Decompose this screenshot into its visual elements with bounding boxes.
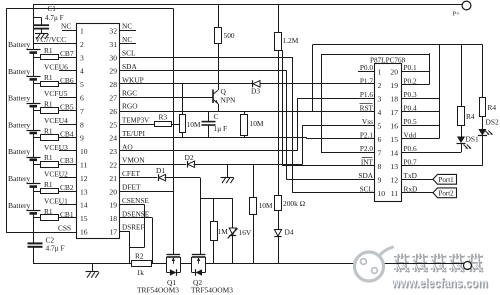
svg-text:P+: P+	[453, 11, 461, 18]
svg-text:9: 9	[80, 134, 84, 143]
svg-text:R1: R1	[44, 126, 53, 135]
svg-text:D1: D1	[156, 166, 165, 175]
svg-text:Battery: Battery	[8, 174, 31, 183]
svg-text:TE/UPI: TE/UPI	[122, 129, 146, 138]
svg-text:R1: R1	[44, 207, 53, 216]
svg-text:D4: D4	[285, 228, 294, 237]
svg-text:4: 4	[378, 108, 382, 117]
svg-text:TRF54OOM3: TRF54OOM3	[137, 286, 179, 295]
svg-text:25: 25	[109, 120, 117, 129]
svg-text:DSENSE: DSENSE	[122, 210, 150, 218]
svg-text:5: 5	[378, 122, 382, 131]
svg-text:17: 17	[390, 108, 398, 117]
svg-text:1: 1	[378, 68, 382, 77]
svg-text:24: 24	[109, 134, 117, 143]
svg-text:19: 19	[109, 201, 117, 210]
svg-text:8: 8	[378, 162, 382, 171]
svg-text:Port1: Port1	[439, 176, 455, 184]
svg-text:13: 13	[80, 187, 88, 196]
svg-text:CB7: CB7	[60, 49, 74, 58]
svg-text:18: 18	[390, 95, 398, 104]
svg-text:CFET: CFET	[122, 169, 141, 178]
svg-text:VCEU4: VCEU4	[44, 116, 68, 125]
svg-text:12: 12	[80, 174, 88, 183]
svg-text:R1: R1	[44, 180, 53, 189]
svg-text:9: 9	[378, 176, 382, 185]
svg-text:11: 11	[391, 189, 399, 198]
svg-text:CSENSE: CSENSE	[122, 197, 149, 205]
svg-text:32: 32	[109, 27, 117, 36]
svg-text:VCEU1: VCEU1	[44, 196, 68, 205]
svg-text:D2: D2	[185, 153, 194, 162]
svg-text:INT: INT	[361, 157, 374, 166]
svg-text:SCL: SCL	[360, 184, 374, 193]
svg-text:11: 11	[80, 161, 88, 170]
svg-text:R1: R1	[44, 46, 53, 55]
svg-text:VCFU5: VCFU5	[44, 89, 68, 98]
svg-text:21: 21	[109, 174, 117, 183]
svg-text:VCEU6: VCEU6	[44, 62, 68, 71]
svg-text:R4: R4	[488, 103, 497, 112]
svg-text:15: 15	[390, 135, 398, 144]
svg-text:R1: R1	[44, 153, 53, 162]
svg-text:15: 15	[80, 214, 88, 223]
svg-text:DSREF: DSREF	[122, 224, 144, 232]
svg-text:16V: 16V	[239, 228, 252, 237]
svg-text:VCEU2: VCEU2	[44, 170, 68, 179]
svg-text:P0.1: P0.1	[404, 63, 418, 72]
svg-text:P0.7: P0.7	[404, 157, 418, 166]
svg-text:5: 5	[80, 80, 84, 89]
svg-text:10M: 10M	[187, 120, 201, 129]
svg-text:Battery: Battery	[8, 147, 31, 156]
svg-text:30: 30	[109, 53, 117, 62]
svg-text:10M: 10M	[259, 201, 273, 210]
svg-text:CB1: CB1	[60, 210, 74, 219]
svg-text:14: 14	[390, 149, 398, 158]
svg-text:500: 500	[224, 31, 235, 40]
svg-text:SDA: SDA	[358, 171, 373, 180]
svg-text:Port2: Port2	[439, 189, 455, 197]
svg-text:Vss: Vss	[362, 117, 373, 126]
svg-text:RGC: RGC	[122, 89, 137, 98]
svg-text:CB3: CB3	[60, 156, 74, 165]
svg-text:WKUP: WKUP	[122, 75, 144, 84]
svg-text:DS2: DS2	[486, 118, 499, 127]
svg-text:8: 8	[80, 120, 84, 129]
svg-text:R2: R2	[135, 252, 144, 261]
svg-text:VCEU3: VCEU3	[44, 143, 68, 152]
svg-text:2: 2	[378, 81, 382, 90]
svg-text:AO: AO	[122, 142, 133, 151]
svg-text:1k: 1k	[137, 268, 145, 277]
svg-text:CB4: CB4	[60, 129, 74, 138]
svg-text:200k Ω: 200k Ω	[283, 199, 306, 208]
svg-text:27: 27	[109, 94, 117, 103]
svg-text:P0.3: P0.3	[404, 90, 418, 99]
svg-text:DS1: DS1	[466, 135, 479, 144]
svg-text:10: 10	[378, 189, 386, 198]
svg-text:P0.6: P0.6	[404, 144, 418, 153]
svg-text:3: 3	[378, 95, 382, 104]
svg-text:NPN: NPN	[221, 96, 236, 105]
svg-text:CSS: CSS	[58, 224, 71, 233]
svg-text:Vdd: Vdd	[404, 130, 417, 139]
svg-text:RxD: RxD	[404, 184, 418, 193]
svg-text:P1.7: P1.7	[360, 76, 374, 85]
svg-text:10: 10	[80, 147, 88, 156]
svg-text:NC: NC	[122, 22, 132, 31]
svg-text:7: 7	[80, 107, 84, 116]
svg-text:D3: D3	[251, 86, 260, 95]
svg-text:P0.4: P0.4	[404, 103, 418, 112]
svg-text:P0.2: P0.2	[404, 76, 418, 85]
svg-text:P2.0: P2.0	[360, 144, 374, 153]
svg-text:29: 29	[109, 67, 117, 76]
svg-text:14: 14	[80, 201, 88, 210]
svg-text:28: 28	[109, 80, 117, 89]
svg-text:4: 4	[80, 67, 84, 76]
svg-text:1.2M: 1.2M	[283, 36, 299, 45]
svg-text:www.elecfans.com: www.elecfans.com	[391, 276, 488, 290]
svg-text:16: 16	[390, 122, 398, 131]
svg-text:VC7/VCC: VC7/VCC	[35, 35, 66, 44]
svg-text:23: 23	[109, 147, 117, 156]
svg-text:R3: R3	[159, 113, 168, 122]
svg-text:R4: R4	[466, 112, 475, 121]
svg-text:C1: C1	[48, 5, 57, 13]
svg-text:17: 17	[109, 228, 117, 237]
svg-text:R1: R1	[44, 73, 53, 82]
svg-text:SCL: SCL	[122, 49, 136, 58]
svg-text:Battery: Battery	[8, 40, 31, 49]
svg-text:7: 7	[378, 149, 382, 158]
svg-text:NC: NC	[61, 22, 71, 31]
svg-text:12: 12	[390, 176, 398, 185]
svg-text:DFET: DFET	[122, 183, 141, 192]
svg-text:P0.0: P0.0	[360, 63, 374, 72]
svg-text:3: 3	[80, 53, 84, 62]
svg-text:Battery: Battery	[8, 67, 31, 76]
svg-text:31: 31	[109, 40, 117, 49]
svg-text:SDA: SDA	[122, 62, 137, 71]
svg-text:20: 20	[109, 187, 117, 196]
svg-text:TRF54OOM3: TRF54OOM3	[191, 286, 233, 295]
svg-text:10M: 10M	[250, 119, 264, 128]
svg-text:20: 20	[390, 68, 398, 77]
svg-text:CB5: CB5	[60, 103, 74, 112]
svg-text:R1: R1	[44, 100, 53, 109]
svg-text:16: 16	[80, 228, 88, 237]
svg-text:Battery: Battery	[8, 120, 31, 129]
svg-text:P0.5: P0.5	[404, 117, 418, 126]
svg-text:22: 22	[109, 161, 117, 170]
svg-text:NC: NC	[122, 35, 132, 44]
svg-text:CB2: CB2	[60, 183, 74, 192]
svg-text:TEMP3V: TEMP3V	[122, 117, 149, 125]
svg-text:TxD: TxD	[404, 171, 417, 180]
svg-text:RGO: RGO	[122, 102, 138, 111]
svg-text:RST: RST	[360, 103, 374, 112]
svg-text:Battery: Battery	[8, 201, 31, 210]
svg-text:26: 26	[109, 107, 117, 116]
svg-text:CB6: CB6	[60, 76, 74, 85]
svg-text:18: 18	[109, 214, 117, 223]
svg-text:P1.6: P1.6	[360, 90, 374, 99]
svg-text:1M: 1M	[218, 227, 229, 236]
svg-text:C: C	[214, 112, 219, 121]
svg-text:Battery: Battery	[8, 94, 31, 103]
svg-text:1μ F: 1μ F	[214, 124, 228, 133]
svg-text:6: 6	[378, 135, 382, 144]
svg-text:4.7μ F: 4.7μ F	[45, 14, 64, 22]
svg-text:13: 13	[390, 162, 398, 171]
svg-text:P87LPC768: P87LPC768	[370, 56, 406, 64]
svg-text:2: 2	[80, 40, 84, 49]
svg-text:VMON: VMON	[122, 156, 145, 165]
svg-text:6: 6	[80, 94, 84, 103]
svg-text:1: 1	[80, 27, 84, 36]
svg-text:19: 19	[390, 81, 398, 90]
svg-text:P2.1: P2.1	[360, 130, 374, 139]
svg-text:4.7μ F: 4.7μ F	[46, 244, 65, 253]
